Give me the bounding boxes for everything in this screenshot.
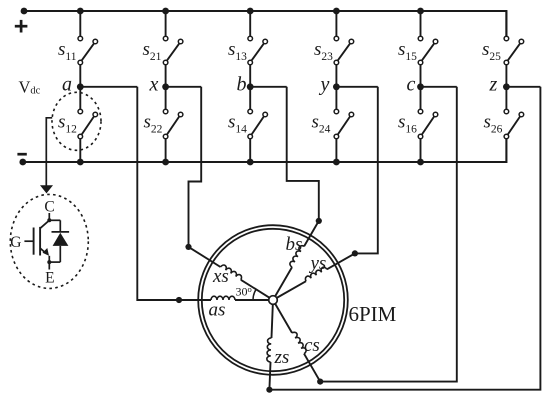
diode D1 triangle: [53, 233, 69, 246]
wire: leg 6 upper drop: [505, 11, 507, 36]
wire: leg 4 upper drop: [335, 11, 337, 36]
node: bottom bus junction leg 3: [247, 159, 254, 166]
dashed ellipse around IGBT: [10, 194, 88, 288]
switch S12: [78, 109, 83, 114]
angle arc 30 degrees: [253, 289, 256, 300]
wire: phase c run to cs winding: [320, 87, 457, 382]
wire: S12 to bottom bus: [79, 139, 81, 162]
svg-text:G: G: [10, 234, 21, 251]
svg-text:C: C: [44, 199, 54, 216]
node z: [503, 83, 510, 90]
node: top bus junction leg 3: [247, 8, 254, 15]
wire: S15 to node c: [420, 65, 422, 87]
wire: emitter to diode branch: [49, 261, 60, 263]
terminal dot ys: [352, 250, 358, 256]
node a: [77, 83, 84, 90]
svg-text:bs: bs: [286, 234, 303, 255]
wire: leg 5 upper drop: [420, 11, 422, 36]
node: + terminal dot: [21, 8, 28, 15]
transistor Q1 emitter diagonal: [40, 248, 46, 253]
wire: S11 to node a: [79, 65, 81, 87]
motor star point hub: [269, 296, 278, 305]
node: top bus junction leg 2: [162, 8, 169, 15]
switch S25: [504, 36, 509, 41]
wire: node a horizontal stub: [80, 86, 137, 88]
diode D1 cathode bar: [52, 231, 70, 233]
wire: node a to S12: [79, 87, 81, 109]
wire: node x to S22: [165, 87, 167, 109]
wire: phase a run to as winding: [137, 87, 179, 300]
wire: S21 to node x: [165, 65, 167, 87]
svg-text:zs: zs: [274, 347, 290, 368]
node: emitter junction dot: [47, 260, 51, 264]
terminal dot xs: [185, 244, 191, 250]
switch S14: [248, 109, 253, 114]
node x: [162, 83, 169, 90]
node: top bus junction leg 5: [417, 8, 424, 15]
dashed highlight circle around S12: [52, 92, 101, 150]
wire: arrow from S12 circle to IGBT detail: [46, 118, 52, 186]
winding xs: [189, 244, 272, 298]
wire: S25 to node z: [505, 65, 507, 87]
node y: [333, 83, 340, 90]
wire: phase z run to zs winding: [269, 87, 540, 390]
svg-text:b: b: [237, 74, 247, 96]
node c: [417, 83, 424, 90]
wire: S24 to bottom bus: [335, 139, 337, 162]
wire: node c to S16: [420, 87, 422, 109]
wire: phase x run to xs winding: [189, 87, 202, 247]
wire: leg 2 upper drop: [165, 11, 167, 36]
svg-text:xs: xs: [212, 266, 229, 287]
transistor Q1 gate bar: [33, 228, 35, 255]
node: top bus junction leg 1: [77, 8, 84, 15]
winding cs: [275, 302, 323, 382]
node: bottom bus junction leg 1: [77, 159, 84, 166]
node b: [247, 83, 254, 90]
wire: collector lead: [48, 213, 50, 220]
transistor Q1 body bar: [39, 227, 41, 256]
node: - terminal dot: [19, 159, 26, 166]
wire: diode branch upper: [59, 220, 61, 232]
winding bs: [272, 219, 319, 296]
wire: S23 to node y: [335, 65, 337, 87]
wire: node x horizontal stub: [166, 86, 202, 88]
switch S13: [248, 36, 253, 41]
switch S24: [334, 109, 339, 114]
svg-text:a: a: [62, 74, 72, 96]
label +: [15, 20, 28, 33]
wire: leg 3 upper drop: [249, 11, 251, 36]
transistor Q1 IGBT collector diagonal: [40, 220, 49, 228]
wire: leg 1 upper drop: [79, 11, 81, 36]
svg-text:E: E: [45, 270, 54, 287]
wire: S16 to bottom bus: [420, 139, 422, 162]
wire: gate lead: [24, 240, 33, 242]
node: bottom bus junction leg 2: [162, 159, 169, 166]
node: bottom bus junction leg 5: [417, 159, 424, 166]
wire: node b horizontal stub: [250, 86, 287, 88]
transistor Q1 emitter arrowhead: [43, 248, 50, 256]
wire: top DC bus (+): [24, 11, 506, 36]
wire: bottom DC bus (-): [23, 139, 507, 162]
svg-text:z: z: [489, 74, 498, 96]
wire: collector to diode branch: [49, 219, 60, 221]
wire: node z to S26: [505, 87, 507, 109]
wire: node b to S14: [249, 87, 251, 109]
winding zs: [266, 304, 273, 390]
svg-text:x: x: [149, 74, 159, 96]
switch S26: [504, 109, 509, 114]
svg-text:y: y: [319, 74, 330, 96]
winding as: [179, 296, 269, 300]
wire: S13 to node b: [249, 65, 251, 87]
switch S23: [334, 36, 339, 41]
wire: S22 to bottom bus: [165, 139, 167, 162]
switch S16: [418, 109, 423, 114]
svg-text:as: as: [209, 300, 226, 321]
wire: S14 to bottom bus: [249, 139, 251, 162]
motor stator outer circle: [198, 225, 348, 375]
switch S22: [163, 109, 168, 114]
switch S11: [78, 36, 83, 41]
svg-text:cs: cs: [304, 335, 320, 356]
winding ys: [275, 250, 355, 298]
switch S15: [418, 36, 423, 41]
terminal dot as: [176, 297, 182, 303]
svg-text:6PIM: 6PIM: [349, 302, 397, 326]
node: bottom bus junction leg 4: [333, 159, 340, 166]
terminal dot cs: [317, 379, 323, 385]
svg-text:ys: ys: [309, 253, 327, 274]
wire: diode branch lower: [59, 246, 61, 262]
wire: emitter lead: [48, 256, 50, 270]
switch S21: [163, 36, 168, 41]
wire: phase b run to bs winding: [287, 87, 319, 221]
wire: phase y run to ys winding: [355, 87, 378, 254]
arrowhead: [40, 185, 53, 193]
wire: node z horizontal stub: [506, 86, 540, 88]
svg-text:c: c: [407, 74, 416, 96]
motor stator inner circle: [202, 229, 344, 371]
terminal dot zs: [266, 387, 272, 393]
node: top bus junction leg 4: [333, 8, 340, 15]
wire: node c horizontal stub: [421, 86, 457, 88]
wire: node y horizontal stub: [336, 86, 377, 88]
terminal dot bs: [316, 218, 322, 224]
wire: node y to S24: [335, 87, 337, 109]
node: collector junction dot: [47, 218, 51, 222]
label - (minus): [17, 153, 26, 156]
